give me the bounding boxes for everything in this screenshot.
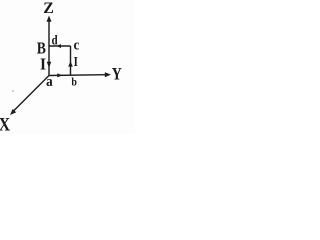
current arrow right on bottom side a to b [57, 73, 62, 77]
node I label right [74, 57, 78, 66]
current arrow down on left side d to a [47, 62, 52, 68]
node c label [74, 43, 79, 50]
wire Z axis line [48, 20, 50, 76]
node a label [47, 79, 53, 86]
wire Y axis line [49, 74, 106, 77]
current arrow left on top side c to d [56, 44, 61, 48]
wire loop right side b-c [70, 46, 72, 75]
current arrow up on right side b to c [68, 61, 73, 66]
Y axis arrowhead [105, 72, 111, 77]
speck [12, 90, 13, 91]
node d label [52, 35, 58, 45]
X axis arrowhead [10, 109, 16, 115]
node X label [0, 118, 10, 131]
Z axis arrowhead [47, 16, 52, 22]
wire loop top side d-c [49, 45, 71, 47]
node b label [72, 78, 77, 86]
wire X axis line [13, 76, 49, 112]
node Z label [44, 3, 53, 14]
node Y label [112, 68, 122, 80]
node B label [37, 43, 46, 54]
node I label left [41, 59, 46, 70]
